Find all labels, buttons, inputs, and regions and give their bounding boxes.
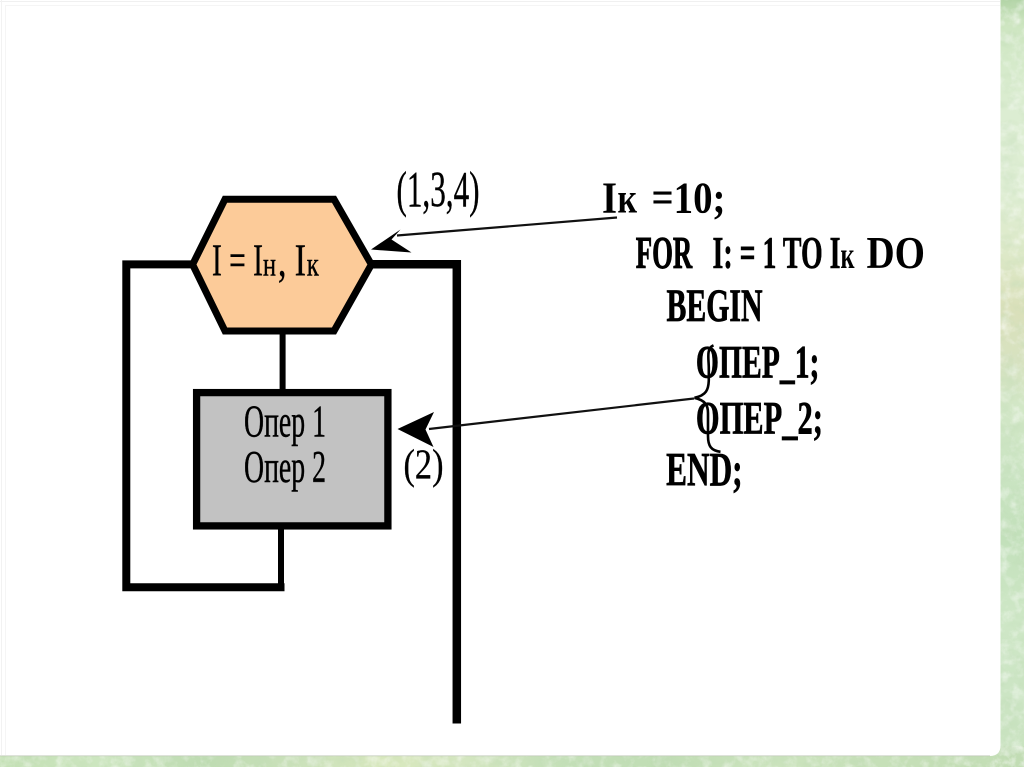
svg-text:ОПЕР_2;: ОПЕР_2; — [696, 392, 823, 444]
svg-text:к: к — [618, 177, 638, 223]
svg-text:DO: DO — [867, 227, 926, 278]
svg-text:к: к — [307, 247, 319, 284]
svg-text:н: н — [263, 247, 276, 284]
svg-text:(1,3,4): (1,3,4) — [397, 163, 480, 219]
svg-text:Опер 1: Опер 1 — [244, 397, 326, 447]
svg-text:(2): (2) — [404, 443, 444, 489]
svg-text:FOR: FOR — [636, 227, 693, 278]
svg-text:, I: , I — [278, 236, 306, 286]
svg-text:Опер 2: Опер 2 — [244, 442, 326, 492]
svg-text:I: = 1 TO I: I: = 1 TO I — [713, 227, 841, 278]
svg-text:ОПЕР_1;: ОПЕР_1; — [696, 337, 820, 389]
svg-text:END;: END; — [666, 444, 743, 497]
svg-text:I: I — [602, 174, 617, 223]
svg-text:I = I: I = I — [212, 236, 263, 286]
svg-text:=10;: =10; — [652, 174, 726, 223]
svg-text:BEGIN: BEGIN — [667, 280, 763, 332]
svg-text:к: к — [841, 235, 855, 277]
